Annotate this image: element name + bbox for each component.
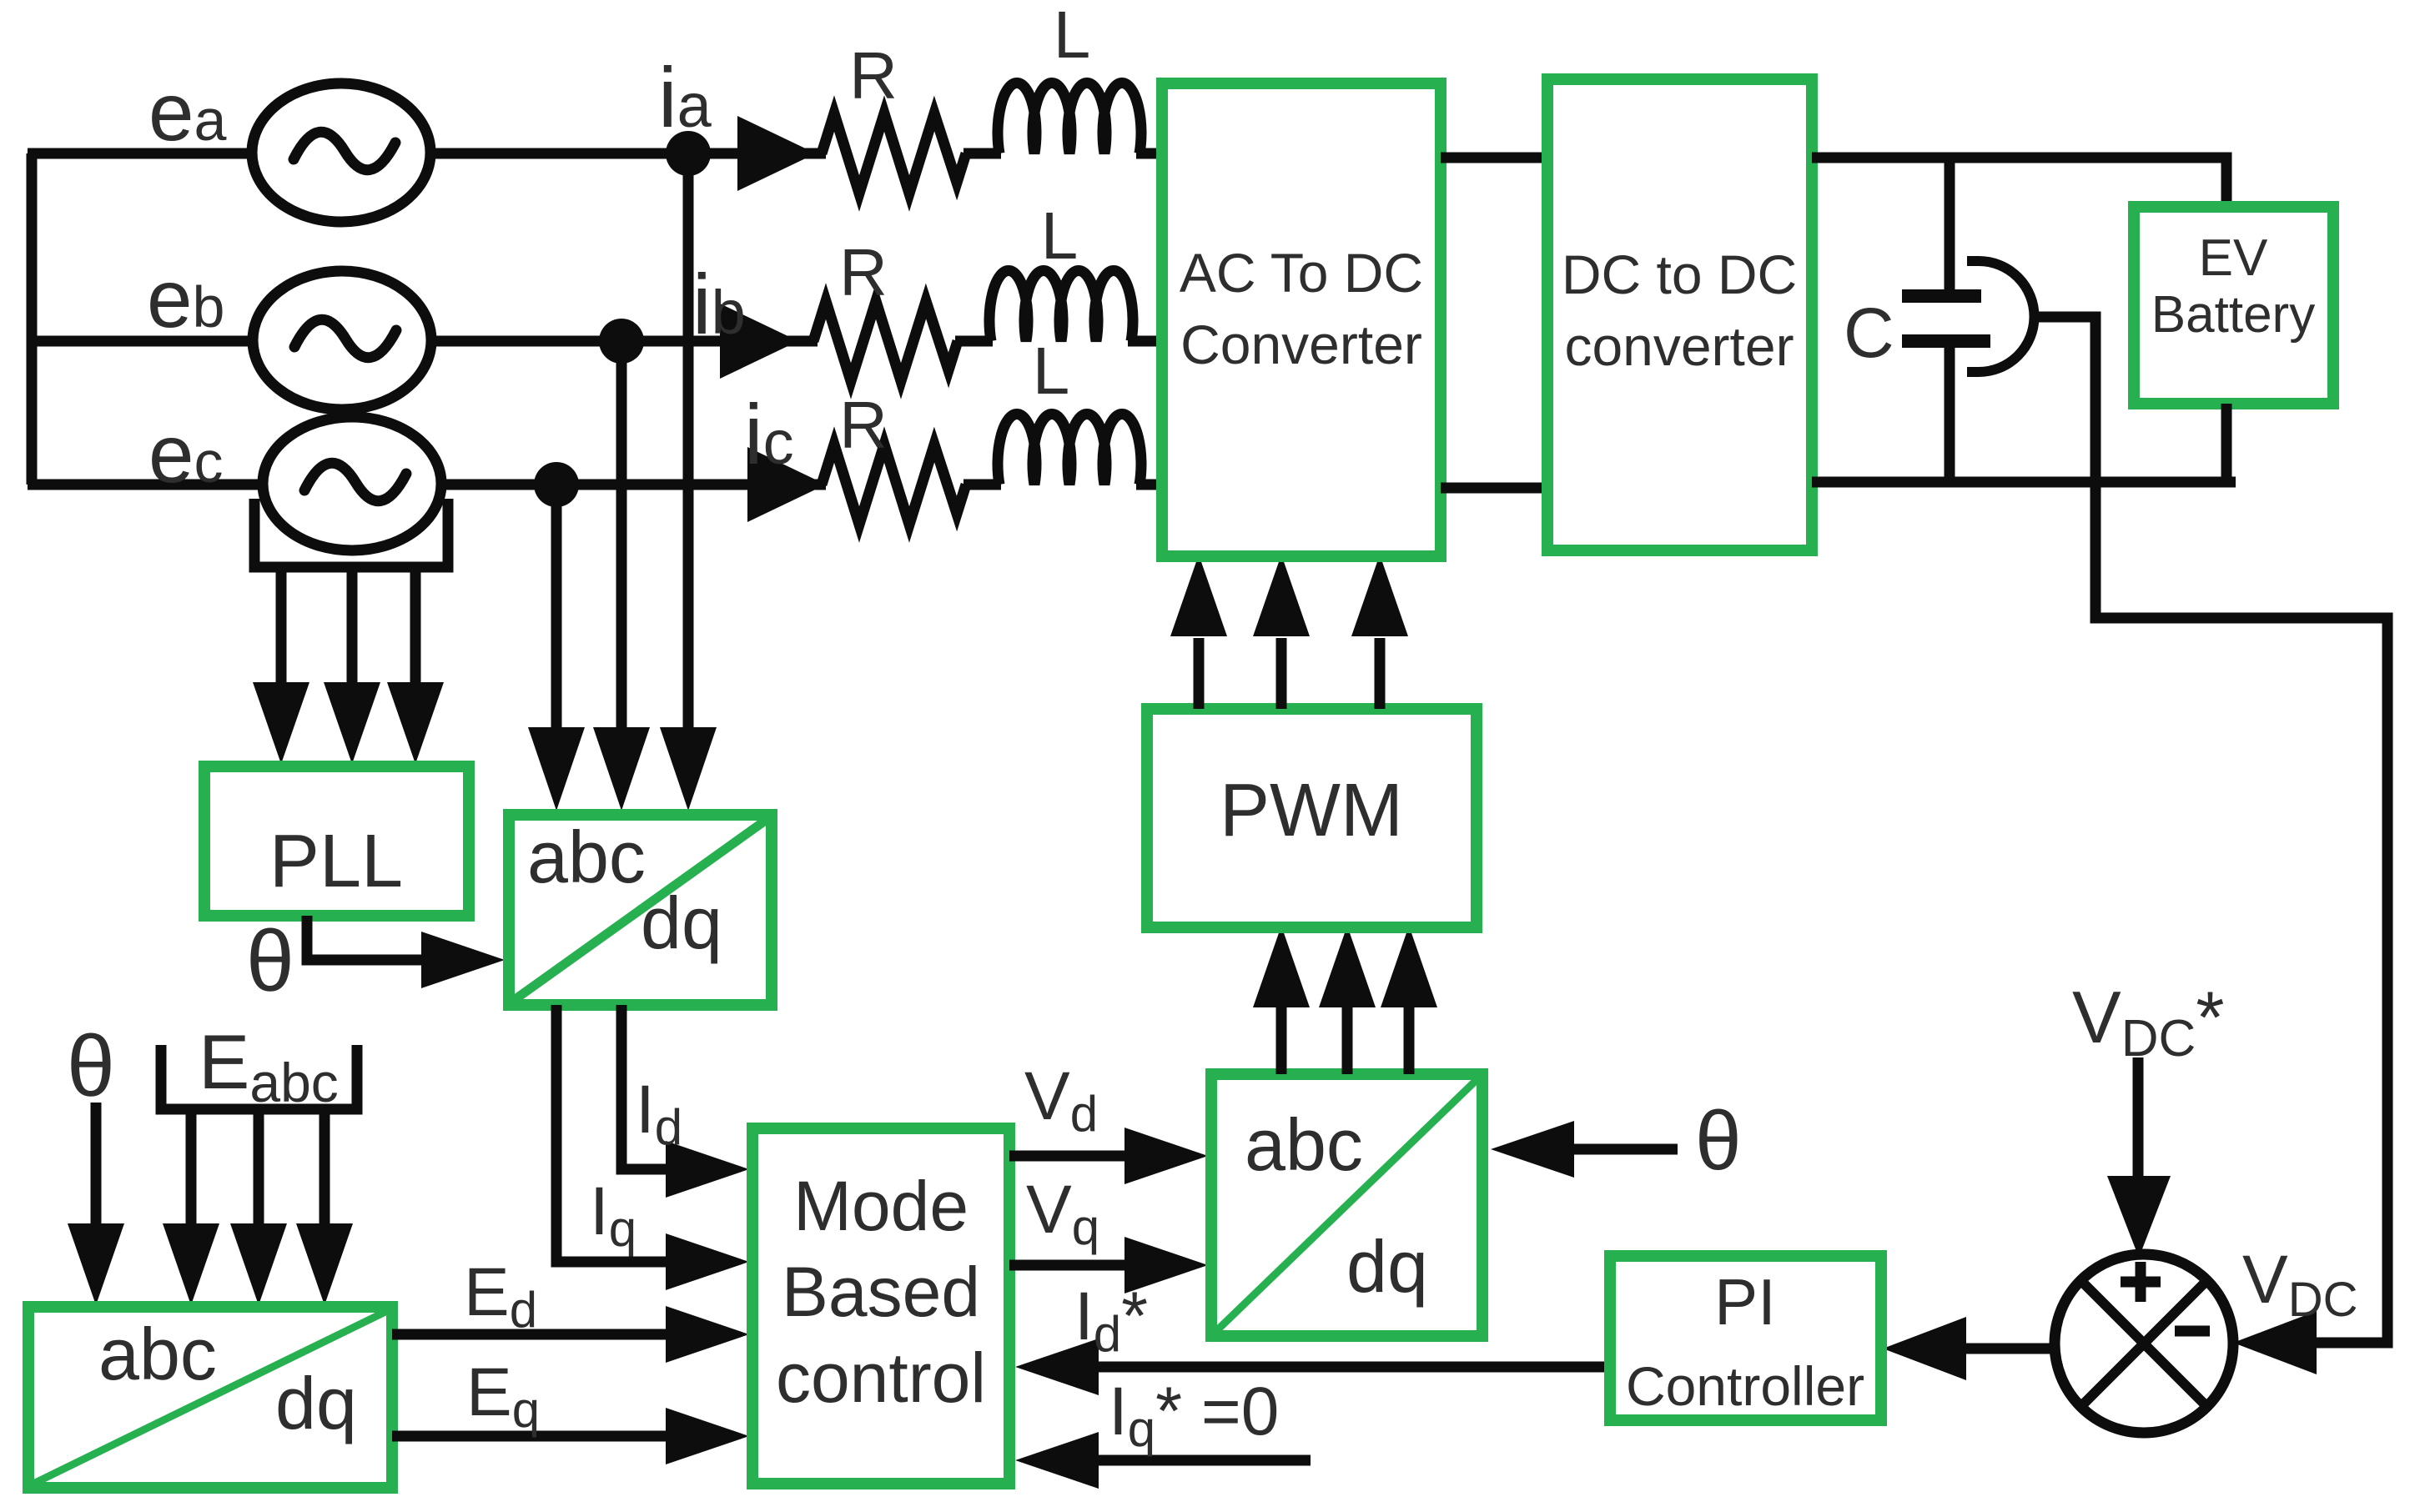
arrow theta into abc-dq2 <box>1491 1121 1574 1178</box>
wire abc-dq2 to PWM line3 <box>1381 926 1437 1074</box>
svg-text:R: R <box>839 388 888 462</box>
DC to DC converter block <box>1547 79 1812 550</box>
svg-text:PWM: PWM <box>1220 769 1403 852</box>
arrow Vq into abc-dq2 <box>1124 1237 1208 1293</box>
arrow Iq into Mode block <box>666 1233 749 1290</box>
wire phase C right segment <box>440 480 826 490</box>
wire Vd from Mode block <box>1009 1151 1126 1162</box>
svg-text:C: C <box>1844 294 1894 372</box>
svg-text:DC to DC: DC to DC <box>1562 244 1797 305</box>
arrow Iq* into Mode block <box>1015 1432 1099 1489</box>
wire Ed from abc-dq3 <box>392 1329 667 1340</box>
wire DC bus bottom <box>1812 477 2236 488</box>
arrow Ea into abc-dq3 <box>163 1109 219 1305</box>
arrow Ed into Mode block <box>666 1306 749 1363</box>
wire abc-dq2 to PWM line1 <box>1253 926 1310 1074</box>
svg-text:R: R <box>849 38 898 113</box>
wire Id* from PI controller <box>1097 1362 1610 1373</box>
svg-text:Based: Based <box>782 1253 980 1331</box>
arrow 2 into PLL <box>324 567 380 764</box>
wire Iq*=0 <box>1097 1455 1311 1466</box>
arrow VDC into summing junction <box>2233 1311 2317 1374</box>
abc-dq3 transform block <box>28 1307 392 1488</box>
wire theta from PLL <box>307 916 421 960</box>
tap bracket under source ec <box>254 499 448 567</box>
sense tap arc at capacitor <box>1967 261 2035 372</box>
arrow ia on phase A <box>737 116 816 191</box>
svg-text:abc: abc <box>98 1313 217 1395</box>
wire ACDC-DCDC top link <box>1441 153 1547 163</box>
wire theta into abc-dq2 <box>1572 1144 1678 1155</box>
wire summing junction to PI <box>1965 1344 2056 1354</box>
label DC to DC converter <box>1562 244 1797 377</box>
wire DC bus top <box>1812 158 2226 208</box>
svg-text:Converter: Converter <box>1180 314 1422 375</box>
abc-dq1 transform block <box>509 815 772 1005</box>
junction dot phase B <box>599 319 644 364</box>
label Mode Based control <box>776 1167 986 1417</box>
svg-text:PI: PI <box>1714 1265 1776 1339</box>
source ec <box>263 417 441 550</box>
svg-text:dq: dq <box>1346 1225 1428 1308</box>
svg-text:θ: θ <box>1695 1094 1742 1188</box>
wire abc-dq2 to PWM line2 <box>1319 926 1376 1074</box>
wire tap B vertical to abc-dq1 <box>616 341 627 727</box>
arrow VDC* into summing junction <box>2107 1176 2171 1258</box>
svg-text:Mode: Mode <box>793 1167 969 1245</box>
PLL block <box>204 766 469 916</box>
wire phase A left segment <box>28 148 254 159</box>
arrow Eb into abc-dq3 <box>230 1109 287 1305</box>
inductor L phase C <box>998 414 1141 485</box>
wire EV battery bottom lead <box>2221 404 2232 482</box>
wire PWM to ACDC line1 <box>1170 555 1227 709</box>
wire left bus vertical <box>27 153 38 485</box>
Mode Based control block <box>752 1128 1009 1484</box>
resistor R phase B <box>813 301 958 381</box>
wire phase A right segment <box>429 148 826 159</box>
wire phase B right segment <box>430 336 818 347</box>
svg-text:Controller: Controller <box>1626 1355 1864 1417</box>
tap bracket Eabc <box>161 1045 357 1109</box>
svg-text:dq: dq <box>275 1362 357 1444</box>
wire tap C vertical to abc-dq1 <box>551 485 562 727</box>
wire Eq from abc-dq3 <box>392 1431 667 1442</box>
capacitor C top lead <box>1945 158 1955 296</box>
plus sign <box>2121 1262 2161 1302</box>
wire Vq from Mode block <box>1009 1260 1126 1271</box>
svg-text:θ: θ <box>246 913 294 1010</box>
capacitor C plates <box>1902 296 1990 341</box>
junction dot phase C <box>534 462 579 507</box>
source eb <box>253 271 431 409</box>
wire VDC sense tap <box>2039 317 2387 1343</box>
capacitor C bottom lead <box>1945 341 1955 482</box>
svg-text:θ: θ <box>67 1018 115 1115</box>
inductor L phase A <box>998 83 1141 153</box>
PI controller block <box>1610 1256 1881 1420</box>
svg-text:dq: dq <box>641 882 722 964</box>
label PI Controller <box>1626 1265 1864 1417</box>
arrow theta into abc-dq1 <box>421 932 505 988</box>
arrow ic on phase C <box>747 447 826 522</box>
AC to DC converter block <box>1162 83 1441 556</box>
svg-text:abc: abc <box>1245 1103 1363 1186</box>
wire Id from abc-dq1 <box>621 1005 667 1169</box>
EV Battery block <box>2134 207 2333 404</box>
PWM block <box>1147 709 1477 927</box>
arrow 1 into PLL <box>253 567 309 764</box>
wire tap A vertical to abc-dq1 <box>683 153 694 727</box>
arrow 3 into PLL <box>387 567 444 764</box>
svg-text:PLL: PLL <box>269 820 403 903</box>
arrow into abc-dq1 from phase C <box>528 727 585 811</box>
arrow theta into abc-dq3 <box>68 1223 124 1305</box>
arrow Eq into Mode block <box>666 1408 749 1464</box>
label EV Battery <box>2151 229 2315 344</box>
minus sign <box>2175 1326 2210 1337</box>
wire ACDC-DCDC bottom link <box>1441 483 1547 494</box>
wire PWM to ACDC line2 <box>1253 555 1310 709</box>
svg-text:control: control <box>776 1339 986 1417</box>
svg-text:abc: abc <box>527 816 646 898</box>
label AC To DC Converter <box>1180 242 1423 375</box>
wire PWM to ACDC line3 <box>1351 555 1408 709</box>
svg-text:EV: EV <box>2199 229 2268 287</box>
abc-dq2 transform block <box>1211 1074 1482 1336</box>
summing junction <box>2055 1254 2233 1433</box>
wire theta down to abc-dq3 <box>91 1103 102 1223</box>
svg-text:R: R <box>839 235 888 309</box>
wire Iq from abc-dq1 <box>556 1005 667 1262</box>
arrow into PI controller <box>1883 1317 1966 1380</box>
inductor L phase B <box>989 271 1133 341</box>
svg-text:L: L <box>1041 198 1079 273</box>
arrow Id* into Mode block <box>1015 1339 1099 1395</box>
wire phase B left segment <box>28 336 254 347</box>
arrow ib on phase B <box>720 304 798 379</box>
wire VDC* down <box>2133 1057 2144 1178</box>
arrow Ec into abc-dq3 <box>296 1109 353 1305</box>
arrow Vd into abc-dq2 <box>1124 1128 1208 1184</box>
resistor R phase C <box>822 445 966 525</box>
svg-text:converter: converter <box>1564 315 1794 377</box>
svg-text:Battery: Battery <box>2151 286 2315 344</box>
resistor R phase A <box>822 113 966 193</box>
arrow into abc-dq1 from phase B <box>593 727 650 811</box>
arrow into abc-dq1 from phase A <box>660 727 717 811</box>
source ea <box>252 83 430 222</box>
svg-text:L: L <box>1054 0 1091 72</box>
junction dot phase A <box>666 131 711 176</box>
svg-text:AC To DC: AC To DC <box>1180 242 1423 304</box>
arrow Id into Mode block <box>666 1141 749 1198</box>
wire phase C left segment <box>28 480 264 490</box>
svg-text:L: L <box>1033 334 1070 408</box>
